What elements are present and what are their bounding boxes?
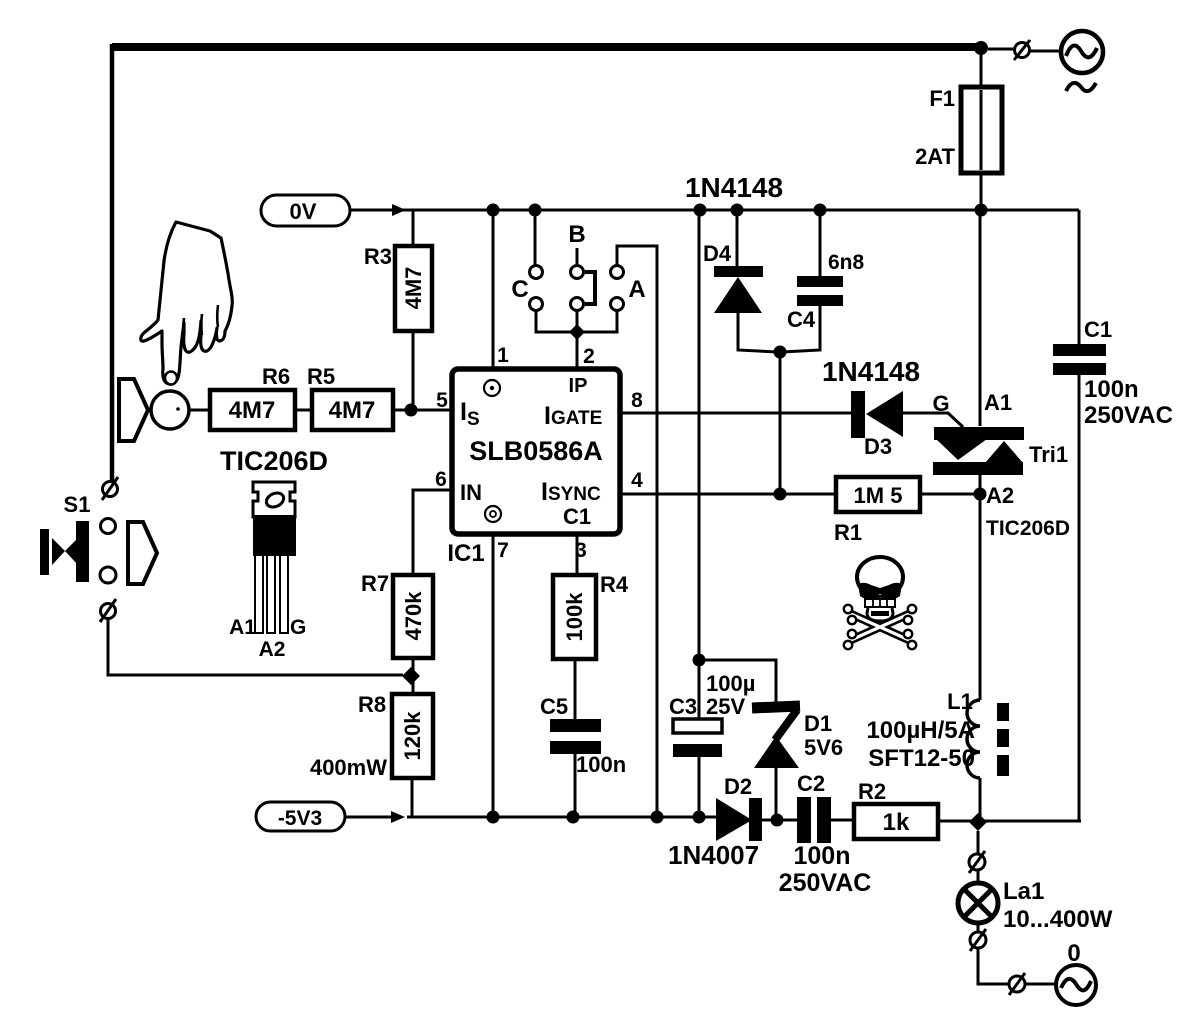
svg-text:A: A	[628, 276, 645, 303]
node D4/C4	[774, 346, 787, 359]
svg-text:B: B	[568, 221, 585, 248]
svg-text:C3: C3	[669, 694, 697, 719]
svg-text:100k: 100k	[562, 592, 587, 642]
arrow phase lower	[128, 522, 157, 584]
svg-text:120k: 120k	[400, 711, 425, 761]
node A2	[974, 488, 987, 501]
svg-text:4: 4	[631, 469, 643, 492]
svg-text:D3: D3	[864, 434, 892, 459]
svg-text:A1: A1	[229, 616, 256, 639]
wire pin 1	[492, 210, 495, 369]
svg-text:SFT12-50: SFT12-50	[868, 745, 975, 772]
junction 0V rail / D4	[731, 204, 744, 217]
svg-text:4M7: 4M7	[401, 267, 426, 310]
wire pin 4 to R1	[620, 493, 836, 496]
node pin4/D4	[774, 488, 787, 501]
svg-text:G: G	[290, 616, 306, 639]
node -5V3 oval	[256, 802, 345, 831]
junction 0V rail / C3 column	[694, 204, 707, 217]
junction 0V rail / pin1	[487, 204, 500, 217]
svg-text:IN: IN	[460, 480, 482, 505]
svg-text:250VAC: 250VAC	[1084, 402, 1173, 429]
wire R4 to C5	[574, 659, 577, 719]
svg-text:100n: 100n	[576, 752, 626, 777]
svg-text:D2: D2	[724, 774, 752, 799]
svg-text:A2: A2	[986, 483, 1014, 508]
wire C5 to rail	[574, 754, 577, 817]
fuse F1	[915, 48, 1002, 210]
svg-text:7: 7	[497, 539, 509, 562]
svg-text:A2: A2	[259, 638, 286, 661]
wire mains top	[112, 43, 981, 51]
svg-text:4M7: 4M7	[329, 397, 376, 424]
svg-text:F1: F1	[929, 86, 955, 111]
capacitor C2	[779, 771, 872, 897]
wire pin 6 to R7	[413, 490, 452, 575]
svg-text:TIC206D: TIC206D	[220, 446, 328, 476]
wire A loop to bottom rail	[617, 246, 657, 817]
svg-text:R6: R6	[262, 364, 290, 389]
wire C2 to R2	[831, 819, 854, 822]
capacitor C1	[1053, 317, 1173, 429]
wire -5V3 rail	[407, 816, 716, 819]
svg-text:S1: S1	[64, 492, 91, 517]
node mains/fuse	[974, 41, 988, 55]
wire D3 to gate	[903, 413, 963, 427]
svg-text:R8: R8	[358, 692, 386, 717]
transistor package TIC206D	[220, 446, 328, 661]
svg-text:2AT: 2AT	[915, 144, 955, 169]
wire pin 8 to D3	[620, 412, 851, 415]
terminal top right	[988, 48, 1014, 51]
svg-text:TIC206D: TIC206D	[986, 517, 1070, 540]
wire 0V arrow	[350, 209, 394, 212]
wire C1 column	[1078, 210, 1081, 821]
svg-text:5V6: 5V6	[804, 735, 843, 760]
svg-text:6n8: 6n8	[828, 251, 865, 274]
wire D1 to bottom wire	[775, 767, 778, 820]
svg-text:1N4148: 1N4148	[685, 172, 783, 203]
wire C3 column	[698, 210, 701, 817]
wire pin 7	[492, 534, 495, 817]
svg-text:R1: R1	[834, 520, 862, 545]
node 0V oval	[261, 195, 350, 226]
svg-text:100n: 100n	[1084, 376, 1139, 403]
svg-text:C1: C1	[563, 504, 591, 529]
junction 0V rail / fuse column	[975, 204, 988, 217]
junction -5V3 rail / C5	[567, 811, 580, 824]
svg-text:250VAC: 250VAC	[779, 869, 872, 897]
junction 0V rail / selector C	[529, 204, 542, 217]
junction -5V3 rail / selector A line	[651, 811, 664, 824]
svg-text:C4: C4	[787, 307, 816, 332]
diode D2 1N4007	[668, 774, 762, 870]
wire left border	[110, 44, 115, 482]
svg-text:R4: R4	[600, 572, 629, 597]
svg-text:-5V3: -5V3	[278, 807, 322, 830]
svg-text:1N4007: 1N4007	[668, 840, 759, 870]
svg-text:100n: 100n	[794, 842, 851, 870]
svg-text:C2: C2	[797, 771, 825, 796]
svg-text:100µ: 100µ	[706, 671, 755, 696]
node lamp junction	[969, 813, 987, 831]
hand touching sensor	[141, 222, 233, 385]
program selector switch C	[511, 210, 542, 311]
svg-text:D1: D1	[804, 711, 832, 736]
wire -5V3 arrow	[345, 816, 391, 819]
svg-text:R5: R5	[307, 364, 335, 389]
node R7/R8/S1	[402, 667, 420, 685]
wire D1 branch	[699, 660, 776, 705]
wire D2 to C2	[762, 819, 797, 822]
wire S1 to R7/R8 junction	[108, 619, 403, 675]
svg-text:C5: C5	[540, 694, 568, 719]
svg-text:5: 5	[436, 389, 448, 412]
program selector switch B	[568, 221, 595, 311]
svg-text:G: G	[932, 391, 949, 416]
node R5/R3	[405, 404, 418, 417]
svg-text:2: 2	[583, 345, 595, 368]
svg-text:Tri1: Tri1	[1029, 442, 1068, 467]
svg-text:4M7: 4M7	[229, 397, 276, 424]
skull warning	[844, 557, 916, 649]
wire R3 column	[412, 210, 415, 410]
svg-text:IP: IP	[569, 375, 588, 397]
resistor R1 1M5	[836, 477, 920, 512]
junction 0V rail / C4	[814, 204, 827, 217]
svg-text:470k: 470k	[401, 591, 426, 641]
svg-text:1M 5: 1M 5	[854, 483, 903, 508]
node C3/D1	[693, 654, 706, 667]
svg-text:400mW: 400mW	[310, 755, 387, 780]
svg-text:R3: R3	[364, 244, 392, 269]
svg-text:6: 6	[435, 468, 447, 491]
wire R8 to -5V3 rail	[411, 778, 414, 817]
svg-text:D4: D4	[703, 241, 732, 266]
wire lamp to AC source	[970, 923, 1056, 995]
svg-text:R2: R2	[858, 779, 886, 804]
arrow phase upper	[119, 379, 148, 441]
node selector common	[569, 324, 585, 340]
touch pad sensor	[151, 391, 189, 429]
wire selector common bus	[536, 310, 617, 369]
svg-text:8: 8	[631, 389, 643, 412]
svg-text:R7: R7	[361, 571, 389, 596]
inductor L1	[866, 689, 1009, 778]
wire R2 to lamp node	[938, 820, 1081, 823]
capacitor C4 6n8	[782, 210, 865, 352]
svg-text:25V: 25V	[706, 694, 745, 719]
wire pad to R6	[189, 409, 210, 412]
svg-text:A1: A1	[984, 390, 1012, 415]
switch S1	[40, 477, 118, 622]
junction -5V3 rail / pin7	[487, 811, 500, 824]
svg-text:La1: La1	[1003, 878, 1044, 905]
wire R5 to IC pin 5	[393, 409, 452, 412]
junction -5V3 rail / C3	[693, 811, 706, 824]
op-amp U1 IC1 SLB0586A	[452, 369, 620, 534]
svg-text:1: 1	[497, 344, 509, 367]
AC source bottom	[1056, 940, 1096, 1005]
wire triac column	[979, 210, 982, 822]
svg-text:0: 0	[1067, 940, 1080, 967]
diode D1 zener 5V6	[752, 706, 843, 768]
svg-text:0V: 0V	[290, 199, 317, 224]
wire R6 to R5	[295, 409, 312, 412]
svg-text:C: C	[511, 276, 528, 303]
node D1/C2	[771, 814, 784, 827]
svg-text:100µH/5A: 100µH/5A	[866, 717, 975, 744]
lamp La1	[958, 878, 1113, 933]
wire R7 to R8	[412, 658, 415, 694]
svg-text:IC1: IC1	[447, 540, 484, 567]
svg-text:SLB0586A: SLB0586A	[469, 436, 603, 466]
diode D3 1N4148	[822, 356, 920, 459]
diode D4 1N4148	[685, 172, 783, 352]
program selector switch A	[611, 266, 646, 311]
AC source top	[1061, 31, 1103, 73]
wire R1 to A2	[920, 493, 980, 496]
triac Tri1	[933, 390, 1070, 540]
svg-text:C1: C1	[1084, 317, 1112, 342]
svg-text:10...400W: 10...400W	[1003, 906, 1113, 933]
svg-text:1k: 1k	[883, 809, 910, 836]
wire 0V rail	[403, 209, 1079, 212]
lamp branch	[969, 831, 985, 884]
wire D4 node to pin4 wire	[779, 352, 782, 494]
svg-text:1N4148: 1N4148	[822, 356, 920, 387]
wire pin 3	[576, 534, 579, 575]
